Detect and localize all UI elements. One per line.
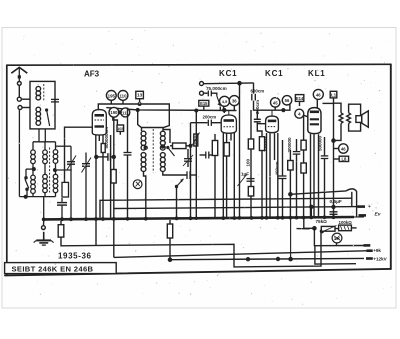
svg-text:L8: L8 [341, 157, 347, 162]
svg-text:100: 100 [246, 158, 251, 166]
svg-text:KL1: KL1 [308, 69, 326, 78]
svg-text:100000: 100000 [263, 136, 268, 152]
svg-text:L1: L1 [331, 93, 337, 98]
svg-text:75.000cm: 75.000cm [206, 86, 227, 91]
svg-text:200000: 200000 [287, 137, 292, 153]
svg-text:+: + [368, 205, 371, 210]
svg-text:105: 105 [117, 127, 123, 131]
svg-text:110: 110 [119, 93, 127, 98]
svg-text:46: 46 [316, 92, 321, 97]
svg-text:E14: E14 [296, 96, 304, 101]
svg-text:200cm: 200cm [203, 115, 217, 120]
svg-text:600cm: 600cm [251, 88, 265, 93]
svg-text:400cm: 400cm [275, 161, 280, 175]
svg-text:500000cm: 500000cm [104, 127, 109, 149]
svg-text:KC1: KC1 [265, 69, 283, 78]
svg-text:4,5: 4,5 [222, 99, 228, 104]
svg-text:1935-36: 1935-36 [58, 252, 92, 261]
svg-text:SEIBT 246K EN 246B: SEIBT 246K EN 246B [12, 265, 94, 274]
svg-text:+9k: +9k [373, 248, 381, 253]
svg-text:SR: SR [334, 236, 340, 241]
svg-text:0,5µF: 0,5µF [330, 199, 342, 205]
svg-text:36: 36 [232, 99, 237, 104]
svg-text:13: 13 [137, 93, 143, 98]
svg-text:200cm: 200cm [255, 100, 260, 114]
svg-text:190: 190 [110, 110, 118, 115]
svg-text:100kΩ: 100kΩ [339, 220, 353, 225]
svg-text:KC1: KC1 [219, 69, 237, 78]
svg-text:45: 45 [273, 100, 278, 105]
svg-text:75kΩ: 75kΩ [316, 219, 328, 224]
svg-text:Ev: Ev [375, 212, 381, 218]
svg-text:195: 195 [108, 93, 116, 98]
svg-text:AF3: AF3 [84, 70, 100, 79]
svg-text:46: 46 [341, 146, 346, 151]
svg-text:+12kV: +12kV [373, 257, 387, 262]
svg-text:1µF: 1µF [241, 172, 249, 177]
svg-text:111: 111 [122, 110, 129, 115]
svg-text:56: 56 [285, 98, 290, 103]
svg-text:E15: E15 [200, 101, 208, 106]
svg-text:500000: 500000 [318, 135, 323, 151]
